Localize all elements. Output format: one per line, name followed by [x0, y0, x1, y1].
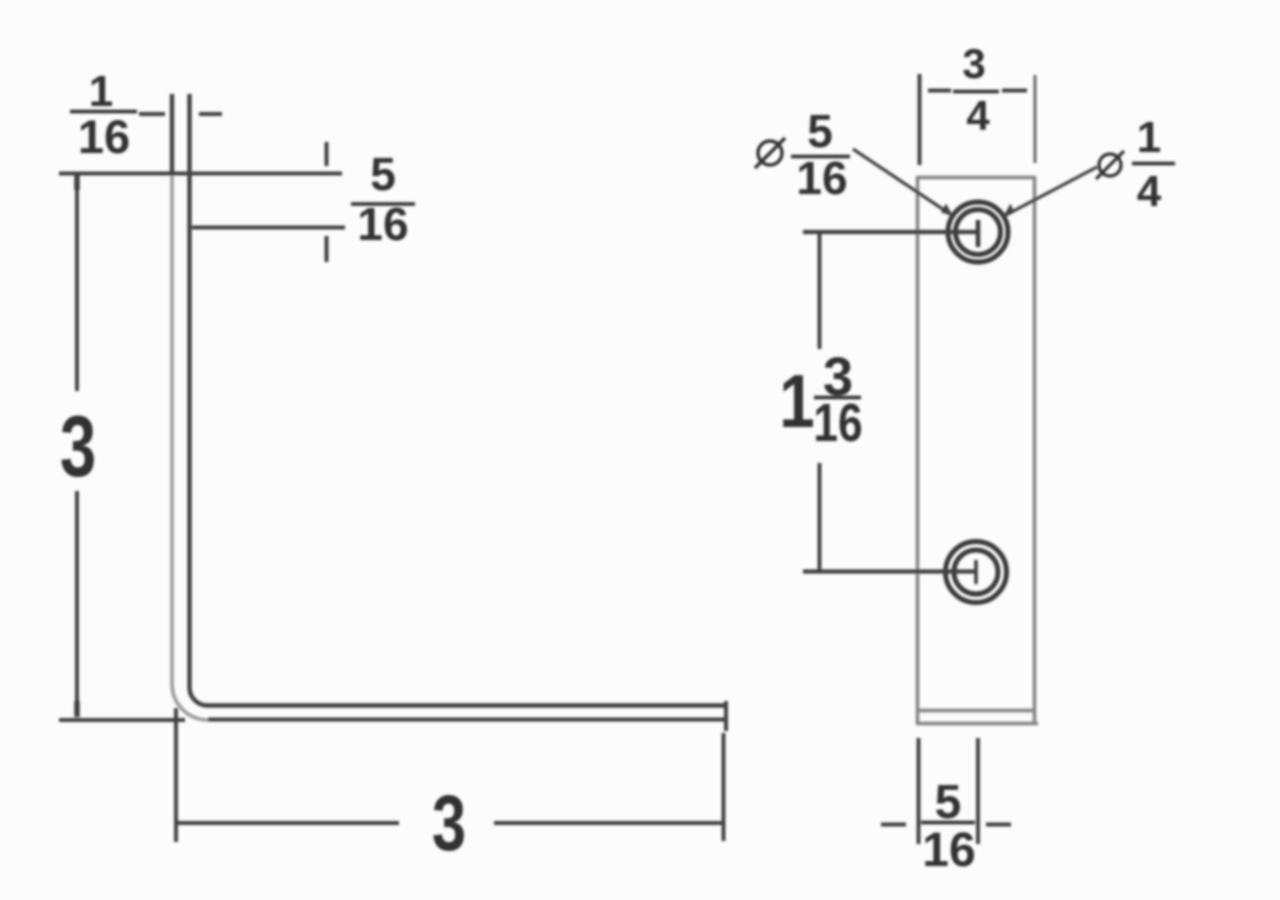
dim: vertical 3 dimension line lower segment [75, 491, 79, 716]
leader line: 1/4 hole callout [1006, 167, 1097, 215]
dim: tick above 5/16 upper line [325, 142, 329, 166]
svg-text:1: 1 [89, 67, 113, 116]
svg-text:3: 3 [432, 780, 466, 868]
dim: 1 3/16 dimension line lower segment [818, 463, 822, 572]
dim: bottom 3 dimension line left part [176, 821, 399, 825]
dim: 3/4 dimension line right dash [1002, 89, 1027, 93]
dim: 1 3/16 top extension line [803, 230, 980, 234]
svg-text:3: 3 [60, 399, 96, 495]
front view: top hole center tick [976, 220, 981, 247]
dim: top extension line of vertical 3 dimension [59, 172, 342, 176]
dim: bottom 5/16 right dash [986, 823, 1011, 827]
dim: 1/16 right dash [199, 112, 222, 116]
dim: bottom 5/16 left dash [881, 823, 906, 827]
leader arrowhead: 1/4 hole callout [1003, 204, 1015, 218]
dim: 1/16 left dash [139, 112, 165, 116]
dim: 1 3/16 dimension line upper segment [818, 232, 822, 349]
side view: outer leg top stub (dark) [170, 94, 174, 174]
front view: top hole inner circle [956, 210, 1001, 255]
leader arrowhead: 5/16 hole callout [941, 204, 953, 217]
dim: bottom 3 right extension line [722, 733, 726, 841]
svg-text:3: 3 [962, 40, 985, 87]
front view: bottom bend line upper [916, 709, 1036, 713]
label: fraction 1/4 (hole callout) [1132, 113, 1175, 216]
svg-text:16: 16 [796, 152, 847, 204]
svg-text:16: 16 [357, 198, 408, 250]
dim: bottom extension line of vertical 3 dimension [59, 718, 185, 722]
svg-text:1: 1 [779, 359, 814, 443]
front view: bottom bend line lower [916, 722, 1038, 726]
label: fraction 1/16 (thickness, top left) [70, 67, 137, 163]
front view: plate top edge [916, 176, 1036, 180]
label: diameter symbol of 5/16 hole [755, 138, 785, 168]
dim: 5/16 lower reference line [192, 226, 345, 230]
dim: 1 3/16 bottom extension line [803, 569, 977, 573]
front view: top hole outer circle [948, 202, 1008, 262]
label: fraction 5/16 (bottom) [921, 776, 976, 877]
svg-text:16: 16 [922, 824, 975, 877]
dim: 3/4 left extension line [918, 74, 922, 165]
side view: bottom outer edge line [208, 718, 727, 722]
svg-text:5: 5 [807, 105, 833, 157]
dim: bottom 5/16 right extension line [976, 738, 980, 844]
dim: bottom 3 left extension line [174, 708, 178, 842]
label: fraction 3/4 (top) [953, 40, 999, 139]
front view: plate left edge [916, 178, 920, 724]
label: fraction 5/16 (hole callout) [791, 105, 850, 204]
svg-text:5: 5 [370, 148, 396, 200]
front view: bottom hole inner circle [954, 550, 998, 594]
side view: inner leg line (dark vertical + bend + bottom inner edge) [190, 94, 728, 706]
front view: plate right edge [1033, 178, 1037, 724]
svg-text:1: 1 [1137, 113, 1161, 162]
front view: bottom hole outer circle [946, 542, 1007, 603]
leader line: 5/16 hole callout [853, 149, 950, 214]
dim: tick below 5/16 lower line [325, 236, 329, 262]
label: 1 3/16 (hole spacing) [779, 347, 862, 453]
label: diameter symbol of 1/4 hole [1096, 151, 1124, 179]
dim: bottom 3 dimension line right part [494, 821, 723, 825]
svg-text:16: 16 [78, 110, 130, 163]
svg-text:4: 4 [1137, 167, 1162, 216]
dim: bottom 5/16 left extension line [917, 738, 921, 844]
front view: bottom hole center tick [974, 560, 978, 584]
svg-text:16: 16 [813, 393, 862, 453]
dim: vertical 3 dimension line upper segment [75, 174, 79, 391]
side view: right end cap of horizontal leg [724, 701, 728, 731]
side view: outer leg line (gray vertical + bend) [172, 174, 208, 721]
dim: 3/4 dimension line left dash [928, 89, 951, 93]
dim: 3/4 right extension line [1033, 75, 1036, 163]
svg-text:4: 4 [966, 92, 990, 139]
label: fraction 5/16 (side view right) [351, 148, 415, 250]
